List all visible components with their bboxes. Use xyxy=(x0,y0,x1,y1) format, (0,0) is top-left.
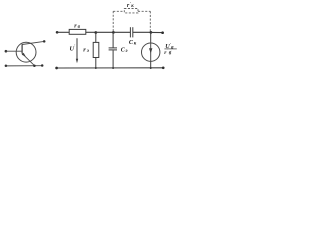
node collector junction xyxy=(150,31,153,34)
node emitter rail right xyxy=(41,64,44,67)
wire current source bottom lead xyxy=(150,61,152,68)
wire re top lead xyxy=(95,33,97,43)
wire re bottom lead xyxy=(95,58,97,69)
node current source rail junction xyxy=(150,67,152,69)
resistor rk dashed branch xyxy=(113,9,150,32)
fraction bar xyxy=(164,48,176,50)
capacitor Ce xyxy=(109,32,117,68)
label current source value numerator xyxy=(165,42,174,50)
resistor re xyxy=(93,42,99,57)
resistor rb xyxy=(69,29,86,34)
capacitor Ck xyxy=(130,27,132,37)
node emitter junction xyxy=(33,65,36,68)
svg-text:э: э xyxy=(86,49,89,54)
svg-text:r: r xyxy=(83,47,86,54)
label re xyxy=(83,47,89,55)
wire rb to node b1 xyxy=(86,31,96,33)
node Ce junction xyxy=(112,31,115,34)
wire base lead xyxy=(6,50,22,52)
label rk xyxy=(127,1,134,9)
wire Ck to collector node xyxy=(133,31,151,33)
svg-text:а: а xyxy=(171,45,174,50)
wire Ce node to Ck xyxy=(113,31,130,33)
label Ce xyxy=(121,48,128,55)
transistor Q1 xyxy=(16,41,44,65)
label current source value denominator xyxy=(164,48,172,57)
node Ce rail junction xyxy=(112,67,114,69)
svg-text:б: б xyxy=(169,51,172,56)
svg-text:э: э xyxy=(125,49,128,54)
node emitter rail input terminal xyxy=(55,67,58,70)
svg-text:б: б xyxy=(78,24,81,29)
wire bottom rail xyxy=(57,67,164,69)
svg-text:': ' xyxy=(74,44,76,49)
wire emitter rail xyxy=(6,65,42,67)
wire collector node to output xyxy=(151,31,163,33)
node re rail junction xyxy=(95,67,97,69)
node base input terminal xyxy=(56,31,59,34)
node b1 junction xyxy=(94,31,97,34)
wire b1 to Ce node xyxy=(96,31,114,33)
svg-text:к: к xyxy=(134,41,137,46)
node emitter rail left xyxy=(5,65,8,68)
wire current source top lead xyxy=(150,32,152,43)
svg-text:к: к xyxy=(131,4,134,9)
label rb xyxy=(74,23,80,29)
wire input to rb xyxy=(57,31,69,33)
label Ck xyxy=(129,39,137,47)
current source G1 xyxy=(142,43,160,61)
node emitter output terminal xyxy=(162,66,165,69)
node collector output terminal xyxy=(161,31,164,34)
label U voltage xyxy=(69,44,76,53)
node base terminal xyxy=(5,50,8,53)
voltage arrow U xyxy=(76,38,78,63)
node collector terminal xyxy=(43,40,46,43)
